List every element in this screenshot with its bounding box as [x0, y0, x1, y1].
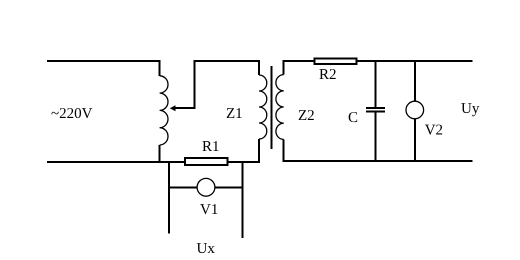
- wire bottom-left to primary: [229, 161, 259, 163]
- svg-text:Ux: Ux: [197, 241, 216, 257]
- svg-text:~220V: ~220V: [51, 106, 93, 122]
- transformer core: [270, 66, 272, 149]
- svg-text:Z2: Z2: [298, 108, 315, 124]
- wire Ux left branch: [168, 161, 170, 234]
- wire secondary bottom: [284, 160, 473, 162]
- voltmeter V2 top stub: [414, 61, 416, 101]
- wiper tap wire: [175, 60, 195, 108]
- wire secondary top right segment: [357, 60, 473, 62]
- svg-text:V1: V1: [200, 202, 218, 218]
- wire secondary top left segment: [284, 60, 315, 62]
- wire V1 branch left: [169, 186, 197, 188]
- voltmeter V2 bottom stub: [414, 119, 416, 162]
- wire Ux right branch: [241, 161, 243, 238]
- transformer Z1 primary winding: [259, 60, 267, 163]
- wire V1 branch right: [215, 186, 242, 188]
- svg-text:Uy: Uy: [461, 101, 480, 117]
- autotransformer (variac) winding: [160, 60, 168, 163]
- capacitor C top stub: [375, 61, 377, 108]
- capacitor C bottom stub: [375, 112, 377, 162]
- wire top-left source: [47, 60, 160, 62]
- voltmeter V2: [406, 101, 424, 119]
- wire bottom-left source: [47, 161, 185, 163]
- svg-text:R2: R2: [319, 67, 337, 83]
- resistor R2: [315, 58, 357, 64]
- svg-text:C: C: [348, 110, 358, 126]
- svg-text:Z1: Z1: [226, 106, 243, 122]
- resistor R1: [185, 158, 228, 165]
- svg-text:R1: R1: [202, 139, 220, 155]
- svg-text:V2: V2: [425, 123, 443, 139]
- wiper arrowhead: [170, 105, 176, 111]
- voltmeter V1: [197, 178, 215, 196]
- wire primary top: [195, 60, 260, 62]
- capacitor C plates: [366, 108, 385, 112]
- transformer Z2 secondary winding: [276, 60, 284, 162]
